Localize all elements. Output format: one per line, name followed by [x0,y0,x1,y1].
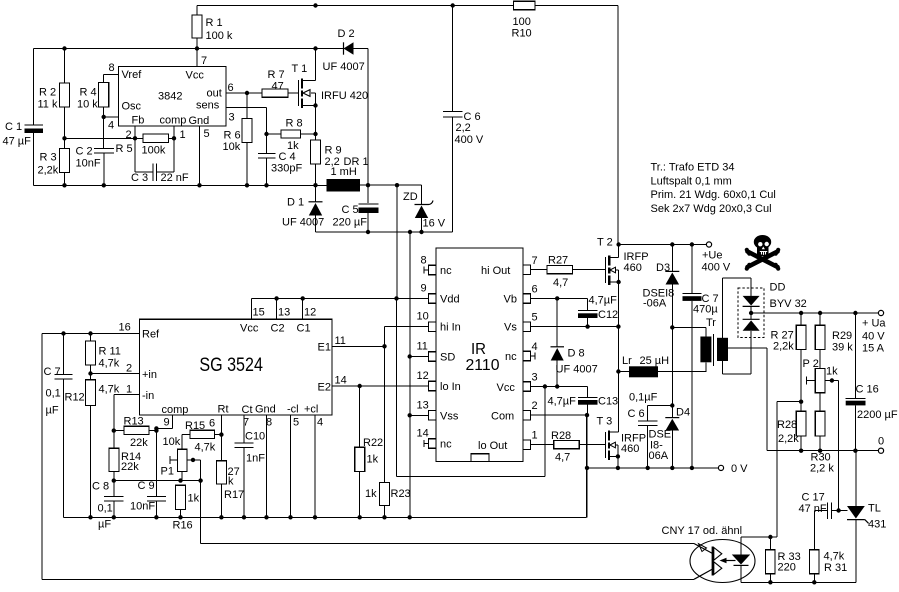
svg-text:P1: P1 [161,466,174,478]
svg-text:Gnd: Gnd [189,115,210,127]
svg-text:R28: R28 [551,430,571,442]
svg-text:2110: 2110 [466,357,500,374]
junction gnd bus pin5 [288,515,292,519]
junction +Ue at C7 [690,242,694,246]
capacitor C7 470u electrolytic [683,245,702,294]
junction D3/primary top node [670,325,674,329]
junction top bus at x=452.7 (C6 branch) [451,3,455,7]
junction at R14/C8 [112,478,116,482]
junction Vcc bus at T1 drain line [313,46,317,50]
svg-text:2,2 k: 2,2 k [810,463,834,475]
svg-text:C 16: C 16 [856,384,879,396]
svg-text:Com: Com [491,411,514,423]
junction gnd bus at pin5 [197,183,201,187]
resistor R27 2,2k (output divider) [796,325,806,349]
svg-text:R 4: R 4 [80,87,97,99]
svg-text:470µ: 470µ [693,304,718,316]
svg-text:R 6: R 6 [224,130,241,142]
svg-text:lo Out: lo Out [478,440,507,452]
svg-text:2: 2 [126,129,132,141]
svg-text:C12: C12 [598,309,618,321]
diode D2 UF4007 [344,42,354,54]
svg-text:UF 4007: UF 4007 [282,217,324,229]
resistor R23 1k [380,482,390,505]
svg-text:22 nF: 22 nF [161,172,189,184]
junction gnd bus R12 [88,515,92,519]
junction sens/C4 node [264,132,268,136]
junction gnd bus at R3 [62,183,66,187]
junction comp stub node [154,426,158,430]
svg-text:47 µF: 47 µF [3,136,32,148]
svg-text:-in: -in [142,390,154,402]
resistor R1 [192,15,202,38]
svg-text:14: 14 [417,428,429,440]
svg-text:comp: comp [162,404,189,416]
capacitor C4 330pF [258,134,276,185]
svg-text:100k: 100k [142,145,166,157]
svg-text:16: 16 [119,322,131,334]
svg-text:400 V: 400 V [702,262,731,274]
svg-text:0: 0 [878,436,884,448]
resistor R7 47 [262,89,288,97]
svg-text:out: out [207,88,222,100]
pin squares left side [429,265,437,448]
svg-text:0,1: 0,1 [98,503,113,515]
svg-text:nc: nc [440,439,452,451]
svg-text:R23: R23 [391,488,411,500]
rail: 0V primary side y=467.9 [587,467,718,469]
svg-text:13: 13 [278,307,290,319]
svg-text:R 11: R 11 [99,346,121,358]
svg-text:Fb: Fb [132,115,145,127]
svg-text:Ct: Ct [242,404,253,416]
svg-text:Vcc: Vcc [497,382,516,394]
svg-text:R 31: R 31 [824,562,847,574]
svg-text:R 8: R 8 [286,118,303,130]
svg-text:2200 µF: 2200 µF [857,409,898,421]
svg-text:C 3: C 3 [131,172,148,184]
resistor R16 1k [176,485,186,509]
wire: Rt pin down to R17 [220,415,222,461]
junction ref node [836,508,840,512]
transformer Tr secondary winding [717,338,728,361]
diode D1 UF4007 [309,201,323,203]
svg-text:0,1µF: 0,1µF [629,392,658,404]
wire: TL431 ref / C17 node [832,510,848,512]
svg-text:-06A: -06A [643,298,667,310]
wire: 3842 pin1 comp drop [173,126,175,138]
transistor T3 IRFP 460 [606,431,621,461]
svg-text:T 3: T 3 [597,416,613,428]
svg-text:9: 9 [421,283,427,295]
svg-text:2,2: 2,2 [456,122,471,134]
svg-text:431: 431 [868,519,886,531]
svg-text:2: 2 [532,400,538,412]
svg-text:C 17: C 17 [802,492,825,504]
svg-text:D 2: D 2 [338,28,355,40]
junction comp node [172,136,176,140]
svg-text:4,7µF: 4,7µF [589,295,618,307]
junction gnd bus C9 [154,515,158,519]
resistor R13 22k [124,426,149,434]
svg-text:7: 7 [532,255,538,267]
svg-text:9: 9 [164,417,170,429]
svg-text:10k: 10k [223,141,241,153]
svg-text:Vss: Vss [440,411,459,423]
wire: Vcc bus y=48.5 from C1 corner to T1 drain line [34,49,316,126]
pin 14 nc stub [424,440,429,447]
rail: opto/TL bottom y=582.3 [741,581,856,583]
wire: -in pin1 down to R13/R14 [114,395,140,449]
transistor T1 source line to R9 [315,106,317,141]
svg-text:Gnd: Gnd [255,404,276,416]
junction -in/R13/R14 node [112,428,116,432]
svg-text:E1: E1 [318,342,331,354]
wire: secondary center tap to output 0 rail [728,348,767,451]
svg-text:06A: 06A [649,450,669,462]
svg-text:25 µH: 25 µH [640,355,670,367]
diode DD upper (pointing down) [743,296,760,306]
svg-text:3842: 3842 [158,91,182,103]
rail: +Ue bus y=244.5 [618,244,706,246]
resistor R17 27k [216,461,226,484]
wire: 3842 pin2 Fb drop [134,126,136,138]
svg-text:1k: 1k [365,488,377,500]
svg-text:R28: R28 [777,419,797,431]
svg-text:100 k: 100 k [206,30,233,42]
wire: comp pin9 stub [156,415,172,428]
svg-text:Vcc: Vcc [240,323,259,335]
svg-text:sens: sens [196,100,220,112]
svg-text:T 1: T 1 [292,63,308,75]
capacitor C6 0,1uF (snubber) [638,406,672,468]
svg-text:0,1: 0,1 [46,388,61,400]
terminal +Ue open circle [706,242,711,247]
svg-text:D4: D4 [676,407,690,419]
pin 8 nc stub [424,267,429,274]
junction 0 rail R30 [818,449,822,453]
junction gnd bus SD/Vss line [408,515,412,519]
junction R33 top [768,535,772,539]
svg-text:BYV 32: BYV 32 [770,298,807,310]
svg-text:C13: C13 [598,396,618,408]
svg-text:4: 4 [108,120,114,132]
svg-text:comp: comp [160,115,187,127]
capacitor C3 22nF loop [135,138,174,181]
junction 0 rail C16/TL [853,449,857,453]
wire: SD pin11 to ground line [410,356,428,358]
transformer Tr primary winding [672,327,706,336]
junction DR1 out / C5 [366,183,370,187]
svg-text:P 2: P 2 [803,358,819,370]
wire: Vcc routing loop to Vdd [397,298,545,476]
potentiometer P2 1k [815,369,825,393]
junction 0V at C7 [690,466,694,470]
junction Com/C13 node [585,413,589,417]
wire: feedback wire y=138.3 [65,137,175,139]
svg-text:D 8: D 8 [568,348,585,360]
capacitor C10 1nF on Ct pin7 [235,415,254,517]
junction 0V at D4 [670,466,674,470]
junction top bus at x=316 [313,3,317,7]
wire: E2 pin14 to IR pin12 lo In [332,385,428,387]
junction Vdd bus at pin13 riser [274,296,278,300]
svg-text:Lr: Lr [622,355,632,367]
svg-text:+ Ua: + Ua [862,318,886,330]
svg-text:µF: µF [46,405,59,417]
svg-text:nc: nc [505,351,517,363]
opto LED arrow [725,560,736,562]
ground bus y=517.3 main [64,415,587,517]
wire: Vdd feed vertical x=397 [396,185,398,298]
svg-text:1: 1 [532,430,538,442]
wire: hi Out pin7 to R27 [531,269,606,271]
wire: Vss pin13 to ground line [410,414,428,416]
resistor R5 100k [143,134,169,142]
wire: SD/Vss ground vertical x=410 [409,232,411,517]
capacitor C17 47nF [814,503,831,550]
svg-text:R12: R12 [65,392,85,404]
svg-text:3: 3 [532,372,538,384]
svg-text:Vdd: Vdd [440,294,460,306]
svg-text:R29: R29 [832,330,852,342]
junction E1/hi-In/R23 node [382,344,386,348]
wire: Vcc pin3 to C13 [531,387,588,398]
capacitor C12 4,7uF electrolytic [578,310,598,312]
svg-text:C 4: C 4 [279,151,296,163]
svg-text:Vs: Vs [504,322,517,334]
rail: output 0 y=450.7 [767,450,879,452]
junction 0V at T3 source [616,466,620,470]
wire: P1 wiper drop to opto wire [201,481,694,544]
junction R13/comp/C9 node [154,428,158,432]
optocoupler CNY17 [662,525,756,583]
resistor R33 220 [766,550,776,574]
svg-text:4,7: 4,7 [555,452,570,464]
svg-text:Tr: Tr [706,317,716,329]
junction Vdd bus at pin12 riser [301,296,305,300]
junction gnd bus at R6 [245,183,249,187]
svg-text:5: 5 [532,312,538,324]
svg-text:ZD: ZD [403,191,418,203]
svg-text:µF: µF [98,519,111,531]
junction R15/Rt node [219,432,223,436]
svg-text:10nF: 10nF [130,501,155,513]
wire: Gnd pin8 drop [266,415,268,517]
svg-text:Vb: Vb [504,294,517,306]
wire: Vs pin5 [531,326,619,328]
junction DD output node [749,311,753,315]
junction gnd bus R17 [219,515,223,519]
wire: hi In link x=384.5 [385,327,429,483]
svg-text:C1: C1 [297,323,311,335]
capacitor C9 10nF [147,431,166,518]
wire: R14/C8/P1 bottom wire y=480.6 [114,480,201,482]
svg-text:Prim. 21 Wdg. 60x0,1 Cul: Prim. 21 Wdg. 60x0,1 Cul [651,189,776,201]
svg-text:400 V: 400 V [455,134,484,146]
svg-text:7: 7 [201,55,207,67]
svg-text:R 3: R 3 [40,152,57,164]
inductor Lr 25uH [618,371,629,373]
junction gnd bus at C4 [264,183,268,187]
svg-text:1 mH: 1 mH [331,166,357,178]
junction bottom rail R33 [768,580,772,584]
wire: 3842 pin6 out to R7 [226,92,298,94]
svg-text:13: 13 [417,400,429,412]
IC U2 IR 2110 box [436,248,523,462]
svg-text:hi Out: hi Out [481,265,510,277]
svg-text:6: 6 [209,418,215,430]
svg-text:UF 4007: UF 4007 [556,364,598,376]
resistor R3 2,2k [60,149,70,173]
resistor R10 [514,1,536,9]
wire: opto LED feed from divider [777,402,801,537]
svg-text:R13: R13 [124,416,144,428]
svg-text:4,7k: 4,7k [99,384,120,396]
rail: +Ua y=313 [751,312,878,314]
svg-text:R15: R15 [185,420,205,432]
svg-text:nc: nc [440,265,452,277]
svg-text:3: 3 [229,112,235,124]
resistor R11 4,7k [86,341,96,365]
junction Vcc/D8 node [555,384,559,388]
svg-text:R10: R10 [512,28,532,40]
junction Ref at R11 [88,331,92,335]
resistor R4 10k with pin8 Vref wire [99,83,109,108]
diode D8 UF4007 [556,298,558,347]
capacitor C5 220uF electrolytic [359,203,379,205]
svg-text:+cl: +cl [304,404,318,416]
junction SD node [408,354,412,358]
svg-text:220 µF: 220 µF [333,217,368,229]
capacitor C1 47uF electrolytic [25,125,44,185]
svg-text:Tr.: Trafo ETD 34: Tr.: Trafo ETD 34 [651,162,735,174]
svg-text:C 8: C 8 [92,481,109,493]
pin squares right side [523,265,531,450]
pin 4 nc stub [531,353,536,360]
icon skull and crossbones [745,235,781,271]
svg-text:R 7: R 7 [268,69,285,81]
svg-text:8: 8 [109,62,115,74]
svg-text:Luftspalt 0,1 mm: Luftspalt 0,1 mm [651,175,732,187]
zener diode ZD 16V [415,201,434,205]
junction Lr node [616,369,620,373]
diode D3 DSEI8-06A [671,245,673,272]
svg-text:4,7: 4,7 [553,277,568,289]
junction Vdd bus at 16V feed [394,296,398,300]
wire: opto feed corner to R33 [741,536,777,538]
svg-text:5: 5 [293,417,299,429]
junction R2/R3 node [62,136,66,140]
svg-text:C2: C2 [271,323,285,335]
svg-text:C 2: C 2 [76,146,93,158]
svg-text:R17: R17 [224,489,244,501]
svg-text:2,2k: 2,2k [773,341,794,353]
svg-text:R 1: R 1 [206,17,223,29]
svg-text:R 9: R 9 [325,145,342,157]
svg-text:CNY 17 od. ähnl: CNY 17 od. ähnl [662,525,743,537]
svg-text:DD: DD [770,282,786,294]
wire: Ref pin16 y=333.5 and left drop to opto wire [42,334,140,580]
junction bottom rail R31 [812,580,816,584]
svg-text:D 1: D 1 [287,197,304,209]
shunt regulator TL431 [855,451,857,506]
svg-text:SG 3524: SG 3524 [199,355,263,376]
wire: +cl pin4 drop [314,415,316,517]
svg-text:C 6: C 6 [628,408,645,420]
capacitor C8 0,1uF [104,481,124,518]
svg-text:C 7: C 7 [44,366,61,378]
resistor R29 39k [815,325,825,349]
svg-text:C 5: C 5 [342,204,359,216]
svg-text:460: 460 [624,262,642,274]
junction E2/R22 node [358,384,362,388]
svg-text:6: 6 [532,284,538,296]
svg-text:330pF: 330pF [271,163,302,175]
junction +Ua at R29 [818,311,822,315]
svg-text:R16: R16 [173,520,193,532]
junction +Ue at T2 drain [616,242,620,246]
svg-text:4,7k: 4,7k [195,442,216,454]
junction 16V rail at C5 [366,230,370,234]
junction gnd bus pin4 [313,515,317,519]
resistor R9 2,2 [311,140,321,164]
junction gnd bus R23 [382,515,386,519]
svg-text:R27: R27 [548,255,568,267]
svg-text:2,2k: 2,2k [38,165,59,177]
wire: Vb pin6 to C12 [531,298,588,310]
IC U1 3842 box [119,67,227,127]
resistor R22 1k [355,447,365,471]
svg-text:100: 100 [513,16,531,28]
potentiometer P1 10k [177,449,187,471]
svg-text:2: 2 [126,363,132,375]
transistor T2 IRFP 460 [606,245,621,286]
svg-text:2,2k: 2,2k [778,433,799,445]
diode DD lower (pointing up) [743,318,760,320]
svg-text:16 V: 16 V [423,218,446,230]
rectifier module DD BYV32 dashed box [738,288,764,338]
junction 0V at Com line [585,466,589,470]
wire: pin4 Osc [104,116,119,118]
resistor R14 22k [109,448,119,471]
junction gnd bus pin8 [264,515,268,519]
junction gnd bus at C2 [102,183,106,187]
svg-text:10k: 10k [163,436,181,448]
wire: 3842 pin5 Gnd down to ground bus [199,126,201,185]
junction gnd bus R22 [358,515,362,519]
svg-text:Vcc: Vcc [186,70,205,82]
svg-text:+in: +in [142,369,157,381]
svg-text:15 A: 15 A [862,343,885,355]
wire: D2 branch y=48.3 [316,49,369,204]
junction 16V rail at ZD [419,230,423,234]
junction 0V at C6 [646,466,650,470]
junction Vb/D8 node [555,296,559,300]
resistor R28 4,7 (gate T3) [554,440,580,448]
svg-text:1nF: 1nF [246,453,265,465]
wire: lo Out pin1 to R28 [531,444,606,446]
svg-text:4,7µF: 4,7µF [548,396,577,408]
junction at wiper drop [198,478,202,482]
svg-text:hi In: hi In [440,322,461,334]
junction gnd bus C8 [112,515,116,519]
junction 0 rail R28 [799,449,803,453]
terminal 0 open circle [878,448,883,453]
svg-text:UF 4007: UF 4007 [323,61,365,73]
svg-text:6: 6 [228,82,234,94]
svg-text:Rt: Rt [218,404,229,416]
